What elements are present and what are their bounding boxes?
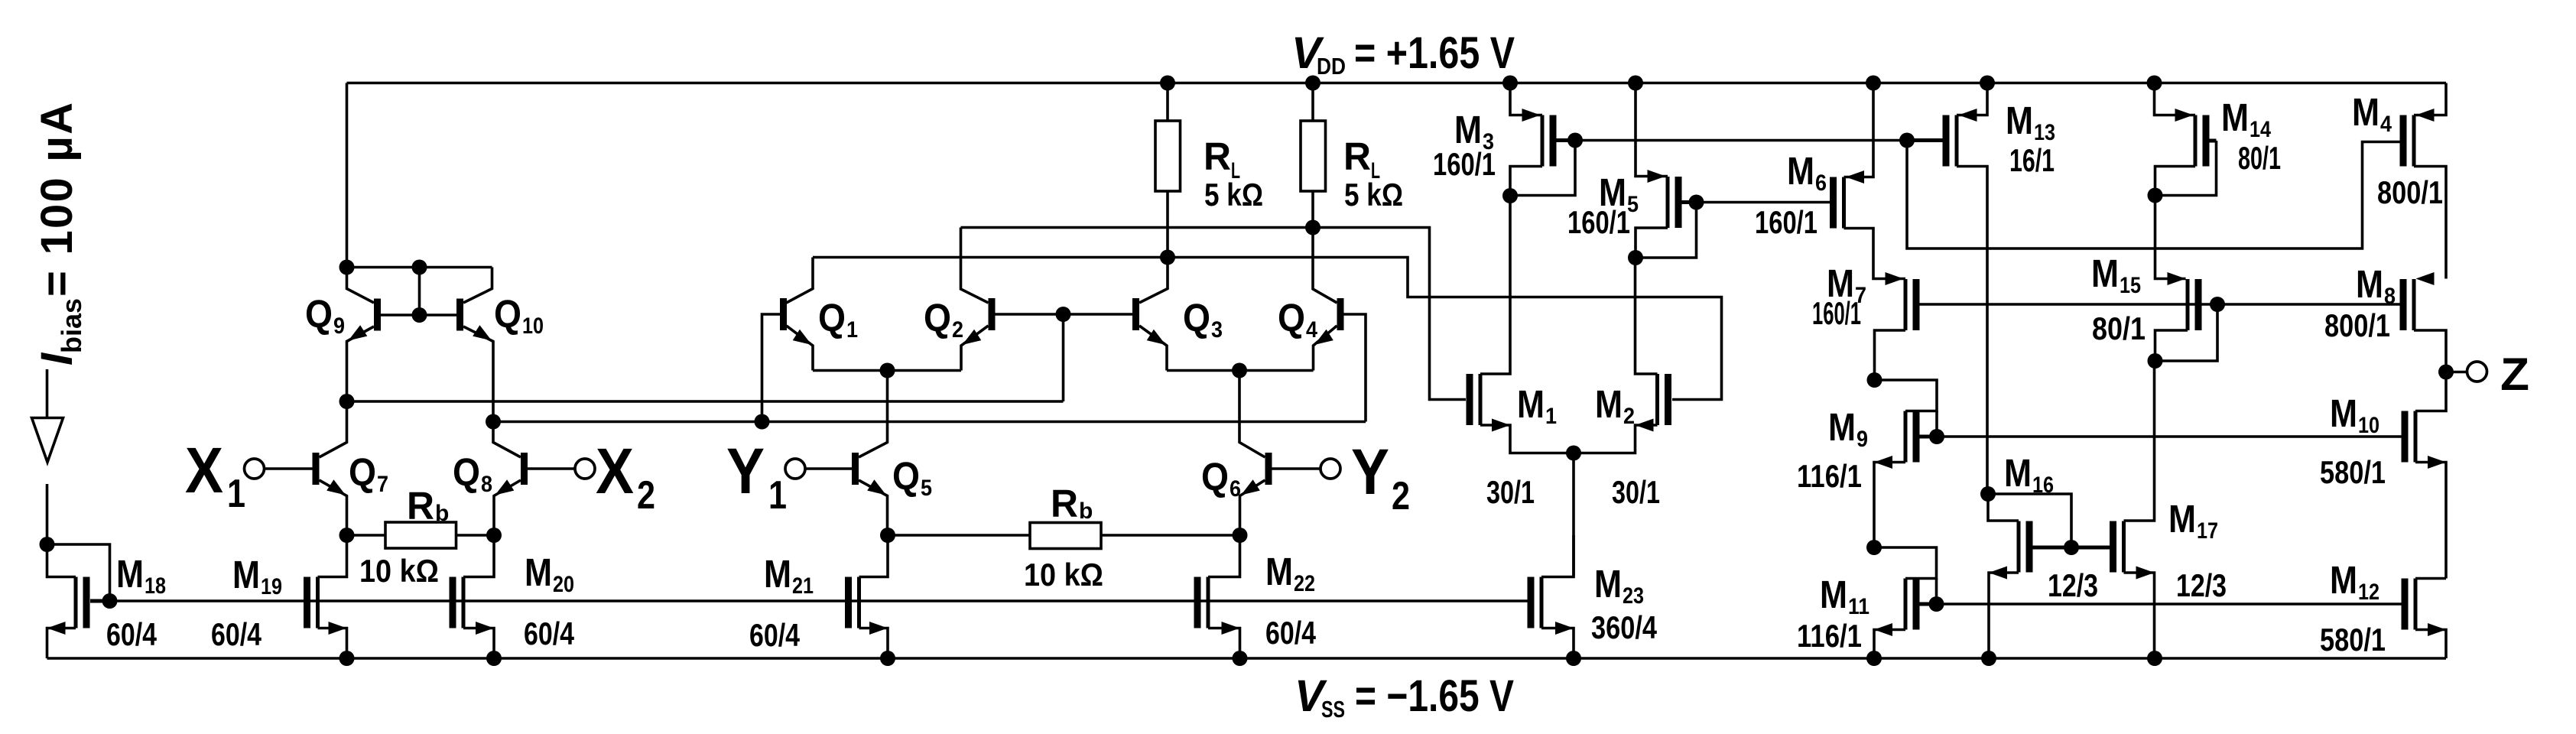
wire Q1 base — [762, 314, 781, 422]
svg-text:R: R — [1051, 482, 1078, 525]
power rail VSS — [47, 657, 2447, 660]
label M20 — [525, 550, 574, 597]
label M17 12/3 — [2176, 567, 2227, 603]
label M14 80/1 — [2238, 140, 2281, 176]
transistor M19 — [304, 577, 318, 628]
wire M10 source — [2415, 463, 2446, 579]
label Q9 — [305, 292, 345, 339]
wire M2 source — [1574, 425, 1658, 453]
current source arrow Ibias — [32, 418, 63, 463]
svg-text:SS: SS — [1321, 696, 1345, 723]
label M14 — [2221, 96, 2271, 142]
svg-text:360/4: 360/4 — [1591, 609, 1658, 645]
node VDD/M5 — [1628, 76, 1643, 91]
wire M22 drain — [1208, 535, 1240, 577]
svg-text:Q: Q — [453, 450, 480, 494]
wire Ibias to M18 gate — [47, 544, 110, 601]
arrow M21 source — [869, 622, 888, 635]
wire M12 source — [2415, 630, 2446, 659]
transistor M21 — [845, 577, 859, 628]
svg-text:M: M — [1454, 108, 1482, 151]
svg-text:Q: Q — [924, 296, 951, 339]
wire M9 diode tie — [1935, 411, 1938, 437]
node Q2/Q3 base — [1056, 307, 1071, 322]
wire M20 drain — [463, 535, 494, 577]
label M21 — [764, 552, 814, 599]
node M19 source VSS — [339, 651, 355, 666]
wire Ibias bottom — [46, 484, 49, 544]
svg-text:= +1.65 V: = +1.65 V — [1354, 28, 1515, 78]
transistor Q8 — [521, 453, 528, 485]
label RL2 5 kOhm — [1344, 177, 1403, 213]
svg-text:1: 1 — [768, 473, 787, 518]
svg-text:80/1: 80/1 — [2238, 140, 2281, 176]
wire Y2 to Q6 base — [1272, 467, 1321, 470]
wire M1 source — [1480, 425, 1574, 453]
wire Q1 collector — [787, 258, 814, 304]
wire M23 source — [1541, 628, 1574, 659]
arrow Q6 emitter — [1241, 479, 1260, 495]
transistor M8 — [2400, 279, 2415, 330]
wire M22 source — [1208, 628, 1240, 659]
label M23 360/4 — [1591, 609, 1658, 645]
wire Q7 collector — [320, 401, 347, 457]
svg-text:bias: bias — [56, 298, 87, 353]
label M13 — [2006, 99, 2055, 145]
node VDD/RL1 — [1160, 76, 1175, 91]
svg-text:Q: Q — [1183, 296, 1210, 339]
wire Q5 collector — [859, 371, 888, 458]
wire M3 gate to M13 — [1575, 139, 1907, 142]
wire Rb2 left — [888, 534, 1030, 537]
svg-text:Q: Q — [1201, 455, 1229, 499]
wire M6 source — [1844, 83, 1874, 177]
net label Ibias = 100 uA (rotated) — [32, 102, 87, 365]
node Z — [2438, 365, 2454, 380]
wire Q4 emitter — [1314, 326, 1337, 371]
wire M2 drain — [1636, 258, 1658, 374]
wire M14 gate stub — [2210, 139, 2217, 143]
arrow Q3 emitter — [1147, 330, 1166, 345]
svg-text:15: 15 — [2120, 273, 2141, 298]
svg-text:M: M — [764, 552, 791, 596]
wire M14 source — [2155, 83, 2196, 115]
wire M11 gate stub — [1920, 602, 1937, 606]
wire X1 to Q7 base — [265, 467, 313, 470]
wire Q2 collector — [961, 228, 989, 304]
arrow Q9 emitter — [349, 325, 368, 340]
node VDD/M13 — [1980, 76, 1995, 91]
wire M9 gate to M10 gate — [1937, 435, 2402, 438]
wire M7 drain — [1875, 330, 1906, 380]
svg-text:16/1: 16/1 — [2009, 142, 2055, 178]
wire M23 drain — [1541, 535, 1574, 577]
transistor Q10 — [456, 299, 463, 331]
arrow Q4 emitter — [1314, 330, 1333, 345]
label Q5 — [892, 454, 932, 501]
label M21 60/4 — [749, 617, 801, 653]
svg-text:7: 7 — [377, 472, 388, 497]
wire M21 drain — [859, 535, 888, 577]
wire Q3 collector — [1139, 258, 1168, 304]
transistor M9 — [1905, 411, 1920, 463]
wire M7 gate wire — [1920, 303, 2402, 306]
wire M5 drain — [1636, 228, 1668, 258]
svg-text:10: 10 — [522, 313, 544, 339]
node M15 gate — [2210, 297, 2225, 312]
svg-text:10: 10 — [2358, 413, 2379, 438]
svg-text:X: X — [185, 434, 223, 506]
wire M18 gate stub — [90, 599, 110, 603]
svg-text:Y: Y — [726, 435, 765, 507]
node M21 source VSS — [880, 651, 895, 666]
node M18 gate — [102, 593, 118, 609]
transistor M15 — [2188, 279, 2202, 330]
label Rb1 10 kOhm — [359, 553, 439, 589]
label Q7 — [349, 450, 388, 497]
svg-text:M: M — [2004, 451, 2032, 495]
arrow Q2 emitter — [963, 330, 982, 345]
wire net RL1/Q1/Q3 to M2 gate — [813, 258, 1722, 400]
wire RL1 top — [1166, 83, 1169, 122]
arrow M12 source — [2428, 623, 2446, 636]
label M19 — [232, 553, 282, 599]
wire Q9 collector — [347, 268, 375, 304]
svg-text:9: 9 — [333, 313, 345, 339]
node Ibias/M18 — [40, 537, 55, 552]
arrow Q10 emitter — [473, 325, 492, 340]
wire M4 drain — [2414, 167, 2446, 279]
svg-text:60/4: 60/4 — [749, 617, 801, 653]
svg-text:M: M — [1820, 573, 1847, 616]
svg-text:9: 9 — [1856, 427, 1868, 452]
node M16/M17 gate — [2064, 540, 2079, 555]
transistor M11 — [1905, 579, 1920, 630]
wire Q2-Q3 base — [996, 313, 1133, 316]
svg-text:4: 4 — [2380, 112, 2392, 137]
label Q1 — [818, 296, 858, 343]
arrow M4 source — [2416, 109, 2435, 122]
label M2 30/1 — [1612, 474, 1660, 510]
node Q5 emitter / Rb2 — [880, 528, 895, 543]
wire M18 drain — [47, 544, 76, 577]
transistor M10 — [2402, 411, 2416, 463]
svg-text:Q: Q — [494, 292, 521, 336]
svg-text:160/1: 160/1 — [1567, 204, 1630, 240]
label M18 — [116, 552, 166, 599]
wire M16 drain — [1988, 494, 2019, 521]
node M15 drain — [2148, 353, 2163, 369]
wire M18 source — [47, 628, 76, 659]
terminal Y1 — [785, 459, 805, 479]
wire M5 source — [1636, 83, 1668, 177]
arrow M16 source — [1989, 567, 2007, 580]
svg-text:21: 21 — [792, 573, 814, 599]
label M22 — [1265, 550, 1315, 596]
wire VDD to Q9 collector — [346, 83, 349, 268]
svg-text:800/1: 800/1 — [2324, 307, 2390, 343]
transistor M20 — [450, 577, 464, 628]
arrow M1 source — [1492, 419, 1510, 432]
label M8 800/1 — [2324, 307, 2390, 343]
transistor M12 — [2402, 579, 2416, 630]
wire M14 diode tie — [2155, 141, 2217, 196]
svg-text:Q: Q — [349, 450, 376, 494]
svg-text:14: 14 — [2250, 117, 2271, 142]
svg-text:8: 8 — [2384, 284, 2396, 309]
node VDD/M3 — [1502, 76, 1518, 91]
wire Q6 emitter — [1240, 480, 1265, 535]
svg-text:2: 2 — [1392, 474, 1410, 518]
svg-text:b: b — [435, 501, 449, 526]
node M5 gate — [1689, 195, 1704, 210]
svg-text:60/4: 60/4 — [211, 616, 262, 652]
wire M9 to M11 drain — [1874, 547, 1937, 579]
svg-text:17: 17 — [2197, 518, 2218, 544]
label M15 — [2091, 252, 2141, 298]
label X1 — [185, 434, 245, 516]
arrow M22 source — [1222, 622, 1240, 635]
arrow Q7 emitter — [326, 479, 346, 495]
svg-text:160/1: 160/1 — [1812, 295, 1861, 331]
wire Y1 to Q5 base — [805, 467, 852, 470]
node M3 gate — [1567, 133, 1583, 148]
wire M19 drain — [318, 535, 347, 577]
label Q3 — [1183, 296, 1223, 343]
label Rb2 10 kOhm — [1024, 557, 1103, 593]
wire M9 gate stub — [1920, 435, 1938, 439]
svg-text:1: 1 — [846, 317, 858, 343]
node M11 gate — [1929, 596, 1944, 612]
label M11 — [1820, 573, 1869, 619]
wire Ibias top — [46, 369, 49, 418]
node M22 source VSS — [1233, 651, 1248, 666]
svg-text:5 kΩ: 5 kΩ — [1204, 177, 1263, 213]
label M16 12/3 — [2048, 567, 2098, 603]
wire M9 drain — [1875, 380, 1938, 411]
label M9 — [1828, 405, 1868, 452]
wire Rb2 right — [1101, 534, 1240, 537]
label M10 580/1 — [2320, 454, 2386, 490]
label VSS = -1.65 V — [1294, 671, 1514, 723]
transistor M5 — [1668, 177, 1682, 228]
wire base tie vertical — [418, 268, 421, 316]
arrow M23 source — [1555, 622, 1574, 635]
label Y2 — [1351, 436, 1410, 518]
node M23 source VSS — [1566, 651, 1581, 666]
svg-text:Y: Y — [1351, 436, 1389, 508]
label VDD = +1.65 V — [1291, 28, 1515, 80]
wire Q4 collector — [1313, 228, 1337, 304]
node M17 source VSS — [2147, 651, 2162, 666]
arrow M19 source — [329, 622, 347, 635]
wire RL1 bottom — [1166, 191, 1169, 258]
node VDD/M14 — [2147, 76, 2162, 91]
transistor Q7 — [313, 453, 320, 485]
node Q9/Q10 base — [412, 307, 427, 323]
svg-text:M: M — [2091, 252, 2119, 295]
wire Q4 base — [1344, 314, 1366, 422]
wire M12 drain — [2415, 577, 2446, 580]
svg-text:10 kΩ: 10 kΩ — [1024, 557, 1103, 593]
wire RL2 bottom — [1311, 191, 1314, 228]
wire M13 source — [1957, 83, 1987, 115]
wire M15 diode tie — [2155, 304, 2218, 361]
wire M13 drain — [1957, 167, 1987, 495]
arrow M3 source — [1522, 109, 1541, 122]
wire Q6 collector — [1239, 371, 1265, 458]
node M16 source VSS — [1981, 651, 1996, 666]
arrow M5 source — [1648, 170, 1666, 183]
wire X2 to Q8 base — [528, 467, 575, 470]
label M8 — [2356, 262, 2396, 309]
label Y1 — [726, 435, 787, 518]
transistor Q5 — [852, 453, 859, 485]
svg-text:2: 2 — [637, 473, 655, 518]
transistor Q1 — [780, 298, 787, 330]
label M7 160/1 — [1812, 295, 1861, 331]
transistor M1 — [1467, 374, 1481, 425]
arrow Q5 emitter — [867, 479, 886, 495]
label M3 — [1454, 108, 1494, 154]
svg-text:10 kΩ: 10 kΩ — [359, 553, 439, 589]
svg-text:12/3: 12/3 — [2176, 567, 2227, 603]
svg-text:22: 22 — [1294, 571, 1315, 596]
wire M5 diode tie — [1636, 203, 1697, 258]
svg-text:DD: DD — [1317, 53, 1346, 80]
label M11 116/1 — [1797, 618, 1862, 654]
svg-text:8: 8 — [481, 472, 492, 497]
wire Q1 emitter — [787, 326, 814, 371]
wire M19 source — [318, 628, 347, 659]
transistor M6 — [1830, 177, 1844, 229]
wire M15 drain — [2155, 330, 2188, 361]
node RL2 bottom — [1305, 220, 1320, 235]
terminal Y2 — [1320, 459, 1340, 479]
wire net RL2/Q2/Q4 to M1 gate — [961, 228, 1467, 400]
svg-text:M: M — [232, 553, 260, 596]
label M1 — [1517, 382, 1557, 429]
svg-text:X: X — [596, 435, 634, 507]
transistor M3 — [1542, 115, 1557, 167]
label M15 80/1 — [2092, 310, 2146, 346]
node Q9 collector — [339, 260, 355, 275]
node Q1/Q2 emitters — [880, 363, 895, 378]
svg-text:M: M — [2221, 96, 2249, 139]
resistor RL1 — [1155, 121, 1181, 191]
wire M6 drain — [1844, 229, 1906, 279]
node M9 source — [1866, 540, 1882, 555]
svg-text:M: M — [1594, 562, 1622, 606]
label M22 60/4 — [1265, 615, 1317, 651]
arrow M7 source — [1886, 272, 1904, 285]
wire M14 drain — [2155, 167, 2196, 196]
svg-text:60/4: 60/4 — [524, 615, 575, 651]
wire Q10 collector — [463, 268, 492, 304]
arrow M17 source — [2136, 567, 2155, 580]
svg-text:M: M — [1595, 382, 1623, 426]
svg-text:Q: Q — [305, 292, 333, 336]
wire Q8 emitter — [494, 480, 521, 535]
label Rb2 — [1051, 482, 1093, 525]
node M3 drain — [1502, 188, 1518, 203]
node Q6 emitter / Rb2 — [1233, 528, 1248, 543]
wire A — [347, 400, 1064, 403]
svg-text:M: M — [2006, 99, 2033, 142]
svg-text:M: M — [1787, 149, 1814, 193]
arrow M9 source — [1874, 456, 1892, 469]
label M16 — [2004, 451, 2054, 498]
svg-text:M: M — [1828, 405, 1856, 449]
transistor M14 — [2195, 115, 2210, 167]
svg-text:5 kΩ: 5 kΩ — [1344, 177, 1403, 213]
svg-text:Q: Q — [892, 454, 920, 498]
svg-text:Q: Q — [1278, 296, 1305, 339]
label M10 — [2330, 391, 2379, 438]
arrow M8 source — [2416, 272, 2435, 285]
wire M3 diode tie — [1510, 141, 1575, 196]
wire M3 drain — [1510, 167, 1542, 196]
arrow M14 source — [2175, 109, 2194, 122]
label M1 30/1 — [1486, 474, 1535, 510]
terminal Z — [2467, 362, 2487, 382]
wire M5 gate stub — [1682, 200, 1697, 204]
transistor M18 — [76, 577, 90, 628]
svg-text:16: 16 — [2032, 473, 2054, 498]
node M7 drain — [1867, 372, 1882, 388]
svg-text:19: 19 — [261, 574, 282, 599]
arrow M15 source — [2168, 272, 2186, 285]
svg-text:M: M — [1265, 550, 1293, 593]
wire RL2 top — [1311, 83, 1314, 122]
wire M17 drain — [2124, 361, 2155, 521]
arrow M13 source — [1959, 109, 1977, 122]
svg-text:6: 6 — [1230, 476, 1241, 502]
svg-text:6: 6 — [1815, 171, 1827, 196]
svg-text:80/1: 80/1 — [2092, 310, 2146, 346]
svg-text:116/1: 116/1 — [1797, 458, 1862, 494]
node Q9 base tie — [412, 260, 427, 275]
wire M9 source — [1874, 463, 1905, 548]
transistor M13 — [1943, 115, 1957, 167]
transistor M17 — [2110, 521, 2124, 573]
node M14 drain — [2148, 188, 2163, 203]
node M20 source VSS — [486, 651, 502, 666]
svg-text:Z: Z — [2500, 349, 2529, 400]
arrow M18 source — [47, 622, 66, 635]
gate bus M18-M23 — [110, 599, 1530, 602]
svg-text:2: 2 — [952, 317, 963, 343]
wire M16 diode tie — [1988, 494, 2071, 547]
transistor Q9 — [374, 299, 381, 331]
transistor M7 — [1905, 279, 1920, 330]
transistor Q4 — [1337, 298, 1344, 330]
label X2 — [596, 435, 655, 518]
svg-text:R: R — [1204, 135, 1231, 178]
wire M8 drain — [2414, 330, 2446, 372]
svg-text:580/1: 580/1 — [2320, 454, 2386, 490]
svg-text:2: 2 — [1623, 404, 1635, 429]
label RL1 — [1204, 135, 1240, 183]
svg-text:18: 18 — [145, 573, 166, 599]
label M12 580/1 — [2320, 622, 2386, 658]
label M9 116/1 — [1797, 458, 1862, 494]
wire M17 source — [2124, 573, 2155, 658]
wire Q3 emitter — [1139, 326, 1167, 371]
label M6 — [1787, 149, 1827, 196]
wire Q9-Q10 base — [381, 313, 456, 317]
arrow Q8 emitter — [495, 479, 515, 495]
